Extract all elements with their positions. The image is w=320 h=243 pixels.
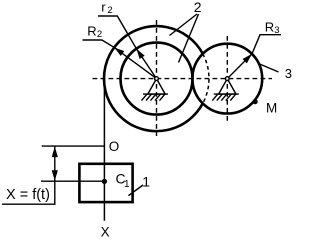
- horizontal centerline (dashed): [93, 78, 273, 80]
- svg-text:r: r: [101, 0, 106, 15]
- vertical centerline of wheel 3 (dashed): [226, 36, 228, 122]
- leader from label 1 to block: [128, 185, 143, 196]
- svg-text:3: 3: [274, 25, 279, 36]
- center of mass dot C1: [102, 179, 107, 184]
- leader from r2 label to arrow tip: [98, 16, 136, 49]
- ground hatching of pulley 2 support: [142, 94, 166, 101]
- pulley 2 outer circle hidden arc (dashed, behind wheel 3): [203, 54, 209, 104]
- pin circle of wheel 3: [225, 77, 229, 81]
- leader from X=f(t) label to arrow: [2, 181, 55, 204]
- vertical centerline of pulley 2 (dashed): [156, 20, 158, 136]
- double arrow X displacement: [54, 146, 56, 181]
- block 1 (slider body): [79, 164, 132, 202]
- fixed pin support of pulley 2: triangle: [148, 79, 165, 95]
- fixed pin support of wheel 3: triangle: [219, 79, 236, 95]
- leader lines from label 2 to pulley rims: [170, 14, 198, 36]
- svg-text:2: 2: [107, 5, 112, 16]
- svg-text:3: 3: [285, 66, 292, 81]
- pulley 2 inner circle r2: [121, 43, 193, 115]
- pulley 2 outer circle R2 (solid arc): [104, 26, 203, 131]
- leader from R2 label to arrow tip: [83, 40, 115, 47]
- svg-text:R: R: [265, 20, 274, 35]
- leader from R3 label to arrow tip: [252, 35, 281, 54]
- point M on wheel 3 rim: [253, 99, 258, 104]
- ground line of wheel 3 support: [214, 93, 239, 95]
- svg-text:R: R: [87, 24, 96, 39]
- svg-text:O: O: [109, 139, 120, 154]
- wheel 3 circle R3: [192, 44, 262, 114]
- leader line from label 3 to wheel rim: [259, 64, 279, 72]
- radius arrow R3 (shaft from center O3 to rim): [227, 54, 252, 79]
- measurement line at level C1: [41, 180, 104, 182]
- svg-text:2: 2: [194, 0, 202, 15]
- svg-text:1: 1: [124, 179, 130, 190]
- svg-text:X = f(t): X = f(t): [6, 187, 50, 203]
- svg-text:M: M: [266, 100, 277, 115]
- pin circle of pulley 2: [155, 77, 159, 81]
- measurement line at level O: [42, 145, 105, 147]
- radius arrow R2 (shaft from center O2 to rim): [114, 47, 156, 78]
- ground line of pulley 2 support: [143, 93, 168, 95]
- radius arrow r2 (shaft from center O2 to inner rim): [136, 49, 156, 79]
- wire rope from pulley 2 down through block, X axis: [103, 79, 105, 221]
- svg-text:2: 2: [97, 29, 102, 40]
- svg-text:1: 1: [142, 173, 150, 189]
- ground hatching of wheel 3 support: [212, 94, 236, 101]
- svg-text:X: X: [101, 225, 110, 238]
